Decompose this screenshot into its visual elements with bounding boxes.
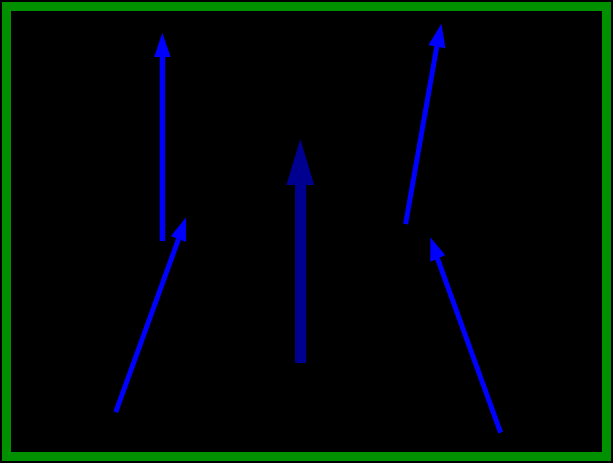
arrow 1: thin vertical blue arrow, upper left	[154, 33, 171, 241]
arrow 4: thin blue arrow, upper right	[406, 24, 446, 225]
arrow 3: thick dark blue vertical arrow, center	[286, 139, 314, 363]
arrow 2: thin diagonal blue arrow, lower left	[116, 217, 186, 412]
arrow 5: thin blue arrow, lower right	[430, 237, 500, 432]
